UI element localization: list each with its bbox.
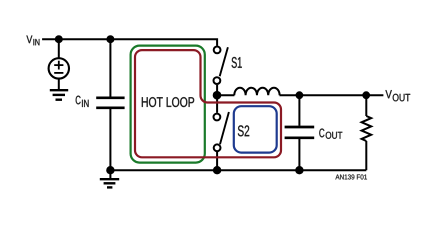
wire source top	[58, 39, 60, 58]
wire source bottom	[58, 79, 60, 91]
wire SW node to S2	[216, 95, 218, 113]
junction COUT bottom	[295, 166, 303, 174]
wire load top	[365, 95, 367, 116]
junction SW node	[213, 91, 222, 100]
node VIN label	[26, 36, 39, 46]
wire CIN top	[109, 39, 111, 96]
wire S1 to SW node	[216, 85, 218, 95]
label S1	[232, 57, 242, 68]
voltage source V1	[49, 58, 69, 78]
switch S1	[214, 47, 228, 85]
junction ground rail	[106, 166, 114, 174]
capacitor COUT	[285, 127, 315, 138]
label S2	[238, 125, 249, 136]
switch S2	[214, 112, 229, 151]
wire COUT bottom	[298, 139, 300, 170]
ground (rail)	[100, 179, 119, 187]
resistor RLOAD	[362, 116, 372, 141]
junction CIN top	[106, 35, 114, 43]
node VOUT label	[385, 90, 410, 101]
junction S2 bottom	[213, 166, 221, 174]
inductor L1	[234, 88, 279, 96]
label COUT	[319, 129, 342, 139]
label CIN	[76, 96, 89, 107]
green loop (outer hot-loop outline)	[131, 46, 205, 163]
junction load top	[362, 91, 370, 99]
capacitor CIN	[96, 98, 124, 108]
wire S2 to bottom rail	[216, 152, 218, 170]
wire inductor to VOUT	[280, 94, 384, 96]
blue box around S2	[234, 106, 277, 152]
wire bottom rail	[110, 169, 366, 171]
wire top rail VIN to S1	[42, 39, 217, 46]
wire CIN bottom	[109, 109, 111, 170]
label AN139 F01	[335, 174, 367, 179]
wire SW node to inductor	[217, 94, 234, 96]
wire ground stub	[109, 170, 111, 179]
wire load bottom	[365, 141, 367, 170]
wire COUT top	[298, 95, 300, 126]
junction source top	[55, 35, 63, 43]
junction COUT top	[296, 91, 304, 99]
red loop (hot loop trace around CIN/S1/S2)	[135, 50, 281, 157]
label HOT LOOP	[142, 97, 194, 107]
ground (source)	[50, 90, 68, 100]
